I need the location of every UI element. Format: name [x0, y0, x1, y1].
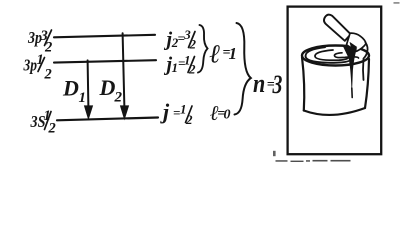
label 3p3/2 [27, 28, 52, 56]
level line 3s1/2 [57, 118, 158, 121]
svg-text:2: 2 [44, 40, 52, 56]
svg-text:2: 2 [48, 121, 56, 137]
label j2=3/2 fraction slash [189, 32, 196, 48]
label 3s1/2 [30, 108, 56, 137]
label D1 [62, 76, 86, 107]
sodium block right side [365, 59, 369, 108]
label 3p1/2 [23, 52, 52, 83]
cut slice flap edge [363, 43, 368, 81]
label n=3 [253, 69, 282, 98]
label l=0 [210, 101, 231, 125]
sodium block left side [302, 57, 304, 111]
svg-text:0: 0 [224, 108, 231, 123]
level line 3p1/2 [54, 60, 156, 62]
svg-text:3p: 3p [23, 56, 37, 75]
svg-text:ℓ: ℓ [210, 40, 221, 69]
knife blade dark bolster [350, 43, 357, 51]
sodium block bottom [304, 108, 365, 115]
label D2 [99, 75, 123, 106]
swirl arc inner [334, 53, 358, 58]
scan mark top right [394, 2, 400, 4]
label j=1/2 [160, 99, 193, 127]
svg-text:1: 1 [37, 52, 44, 68]
svg-text:1: 1 [229, 44, 238, 63]
sodium block top ellipse [302, 46, 369, 66]
big brace for n=3 [235, 23, 251, 115]
label j1=1/2 fraction slash [188, 57, 195, 73]
picture frame box [288, 7, 382, 155]
svg-text:D: D [62, 76, 79, 101]
svg-text:2: 2 [188, 62, 196, 77]
svg-text:2: 2 [114, 90, 123, 106]
knife blade [347, 33, 367, 51]
label j=1/2 fraction slash [186, 106, 193, 123]
knife handle [324, 15, 351, 41]
svg-text:2: 2 [189, 37, 197, 52]
label 3p1/2 fraction slash [38, 58, 45, 72]
transition D2 arrowhead [120, 106, 128, 119]
svg-text:3: 3 [272, 69, 283, 98]
transition D2 wire [123, 33, 125, 108]
transition D1 arrowhead [84, 106, 92, 119]
svg-text:1: 1 [79, 90, 87, 106]
transition D1 wire [87, 60, 90, 108]
svg-text:2: 2 [44, 67, 52, 83]
svg-text:D: D [99, 75, 116, 100]
label 3s1/2 fraction slash [45, 112, 52, 130]
scan smudge below box [276, 160, 351, 162]
svg-text:2: 2 [185, 112, 193, 127]
small brace for l=1 [198, 25, 208, 73]
label 3p3/2 fraction slash [45, 30, 52, 46]
knife cut dark wedge [344, 47, 357, 89]
swirl arc outer [306, 47, 354, 63]
svg-text:n: n [253, 70, 265, 98]
level line 3p3/2 [54, 35, 155, 38]
swirl arc middle [315, 50, 349, 60]
knife cut tail [351, 88, 353, 98]
label j2=3/2 [164, 27, 197, 52]
scan tick at box corner [273, 151, 276, 156]
svg-text:j: j [160, 99, 170, 124]
label j1=1/2 [164, 53, 197, 77]
label l=1 [210, 40, 238, 69]
